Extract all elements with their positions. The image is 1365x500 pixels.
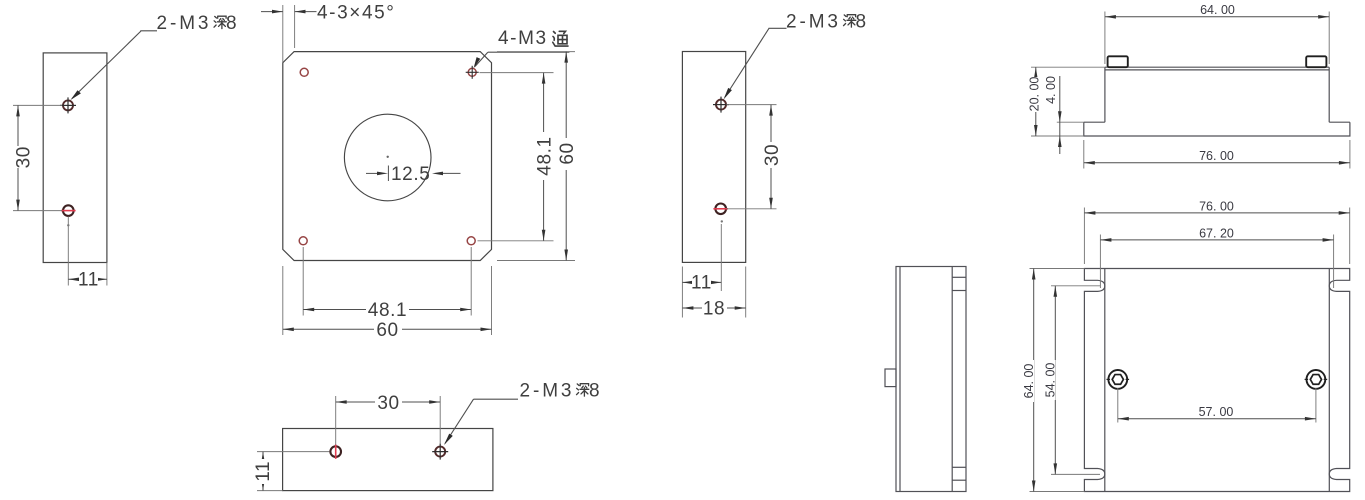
svg-text:30: 30 <box>762 144 783 166</box>
view6 label 2-M3 deep 8 <box>520 381 601 402</box>
view5 left screw <box>1107 370 1130 389</box>
view1 dimension 30 <box>10 105 63 210</box>
svg-text:48.1: 48.1 <box>534 136 555 175</box>
svg-text:4-3×45°: 4-3×45° <box>317 3 396 24</box>
view3 hole centerline extension <box>720 224 722 291</box>
view3 top hole M3 <box>713 97 729 113</box>
view4 flange <box>1084 122 1350 136</box>
svg-text:8: 8 <box>856 12 867 33</box>
view1 dimension 11 <box>68 217 107 291</box>
view2 hole top-left <box>300 68 308 76</box>
view6 left hole M3 <box>330 445 341 459</box>
svg-text:4. 00: 4. 00 <box>1044 76 1058 104</box>
view2 dimension 60 vertical <box>497 52 578 261</box>
view1 leader line <box>71 31 142 100</box>
svg-text:8: 8 <box>226 13 237 34</box>
svg-text:30: 30 <box>13 146 34 168</box>
view4 dimension 20.00 <box>1027 67 1105 136</box>
svg-text:11: 11 <box>78 270 99 291</box>
view2 hole bottom-left <box>299 237 307 245</box>
view3 leader line <box>724 28 770 99</box>
view4 right tab <box>1306 56 1326 67</box>
svg-text:64. 00: 64. 00 <box>1200 3 1235 17</box>
svg-text:30: 30 <box>377 393 399 414</box>
view6 plate outline <box>283 429 493 491</box>
view4 step lines <box>1084 121 1105 123</box>
view3 dimension 11 <box>682 267 721 318</box>
svg-text:64. 00: 64. 00 <box>1022 364 1036 399</box>
view1 plate outline <box>43 53 107 263</box>
svg-text:2-M3: 2-M3 <box>157 13 212 34</box>
svg-text:2-M3: 2-M3 <box>786 12 841 33</box>
view7 slot lines top <box>952 276 966 278</box>
svg-text:2-M3: 2-M3 <box>520 381 575 402</box>
view4 dimension 64.00 <box>1105 3 1329 64</box>
view5 dimension 54.00 <box>1043 286 1100 475</box>
view4 body sides <box>1104 67 1106 122</box>
svg-text:18: 18 <box>703 299 725 320</box>
svg-text:20. 00: 20. 00 <box>1027 77 1041 112</box>
svg-text:57. 00: 57. 00 <box>1199 405 1234 419</box>
view2 dimension 60 horizontal <box>283 266 492 341</box>
view5 dimension 64.00 <box>1022 269 1085 492</box>
svg-text:8: 8 <box>589 381 600 402</box>
svg-text:54. 00: 54. 00 <box>1043 363 1057 398</box>
svg-text:60: 60 <box>376 320 398 341</box>
view4 dimension 76.00 <box>1084 140 1350 169</box>
view4 top plate lines <box>1105 66 1329 68</box>
view3 dimension 30 <box>727 105 783 209</box>
view5 right screw <box>1305 370 1328 389</box>
svg-text:12.5: 12.5 <box>391 164 430 185</box>
view6 leader line <box>444 399 518 445</box>
view7 left double line <box>899 267 901 492</box>
view2 label 4-M3 through <box>474 28 570 69</box>
view6 right hole M3 <box>432 444 448 460</box>
view3 bottom hole M3 <box>713 204 728 223</box>
svg-text:11: 11 <box>691 273 712 294</box>
view3 plate outline <box>682 52 745 263</box>
view2 dimension 48.1 horizontal <box>303 247 471 321</box>
view7 right inner line <box>951 267 953 492</box>
view2 center circle <box>344 114 431 201</box>
view5 dimension 76.00 <box>1084 200 1349 265</box>
view3 dimension 18 <box>682 267 745 320</box>
view2 center dot <box>387 156 389 158</box>
view2 square outline with chamfers <box>283 52 492 261</box>
svg-text:60: 60 <box>557 142 578 164</box>
view2 dimension 48.1 vertical <box>478 73 556 241</box>
svg-text:76. 00: 76. 00 <box>1199 149 1234 163</box>
view4 dimension 4.00 <box>1044 76 1084 154</box>
svg-text:76. 00: 76. 00 <box>1199 200 1234 214</box>
view4 left tab <box>1108 56 1128 67</box>
view5 inner wall lines <box>1104 269 1106 492</box>
view7 outline <box>896 267 966 492</box>
view5 outline with side slots <box>1084 269 1349 492</box>
svg-text:67. 20: 67. 20 <box>1199 227 1234 241</box>
view2 hole bottom-right <box>467 237 475 245</box>
view5 dimension 67.20 <box>1100 227 1333 289</box>
svg-text:48.1: 48.1 <box>368 300 407 321</box>
view6 dimension 11 <box>253 452 330 491</box>
svg-text:4-M3: 4-M3 <box>498 28 548 49</box>
view5 dimension 57.00 <box>1118 388 1316 423</box>
view3 label 2-M3 deep 8 <box>769 12 867 33</box>
view7 slot lines bottom <box>952 466 966 468</box>
view6 dimension 30 <box>336 393 441 445</box>
view1 label 2-M3 deep 8 <box>140 13 237 34</box>
view2 hole top-right <box>466 66 479 79</box>
view1 top hole M3 <box>60 97 76 113</box>
view1 bottom hole M3 <box>61 205 76 226</box>
svg-text:11: 11 <box>253 461 274 482</box>
view7 left tab <box>885 369 896 387</box>
view2 dimension 12.5 <box>366 164 461 185</box>
view2 chamfer dimension 4-3x45 <box>261 3 396 63</box>
